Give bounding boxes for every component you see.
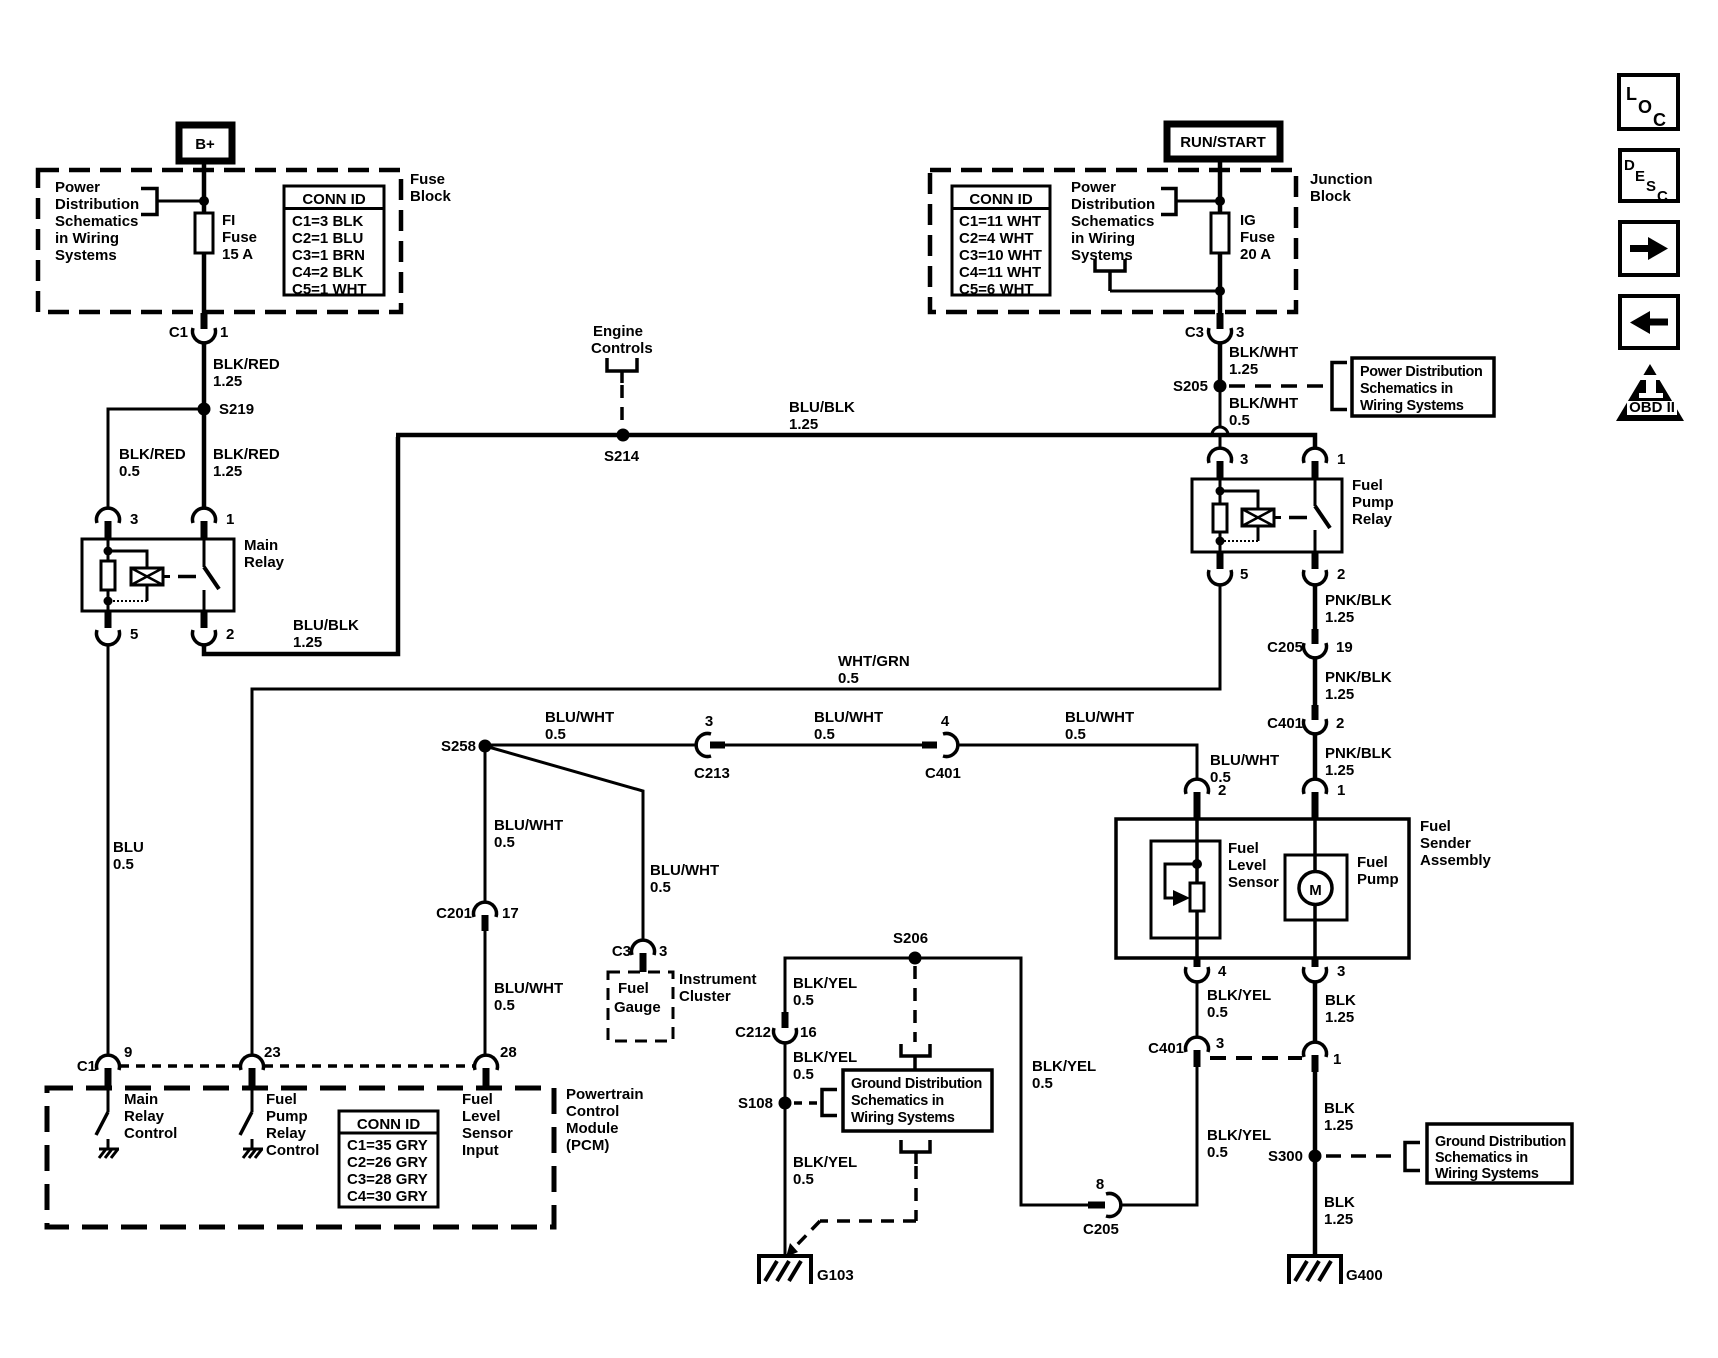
svg-text:PNK/BLK: PNK/BLK <box>1325 592 1392 609</box>
note: Ground Distribution Schematics box (S300) <box>1326 1124 1572 1183</box>
svg-text:BLU/WHT: BLU/WHT <box>1065 709 1134 726</box>
svg-text:Junction: Junction <box>1310 171 1373 188</box>
svg-text:5: 5 <box>130 626 138 643</box>
svg-text:BLK/YEL: BLK/YEL <box>1207 1127 1271 1144</box>
wire BLU/WHT 0.5 horizontal <box>485 744 696 747</box>
wire PNK/BLK 1.25 <box>1313 734 1318 779</box>
svg-text:BLU/WHT: BLU/WHT <box>494 817 563 834</box>
fuel level sensor <box>1151 819 1279 958</box>
wire BLU/WHT 0.5 down to C201 <box>484 752 487 902</box>
svg-text:S300: S300 <box>1268 1148 1303 1165</box>
main relay pin 2 <box>193 611 235 645</box>
svg-text:BLK/RED: BLK/RED <box>213 356 280 373</box>
svg-text:3: 3 <box>1337 963 1345 980</box>
svg-text:Distribution: Distribution <box>55 196 139 213</box>
svg-text:0.5: 0.5 <box>650 879 671 896</box>
main relay pin 5 <box>97 611 139 645</box>
wire BLK/YEL 0.5 from C401-3 to C205-8 <box>1121 1067 1197 1205</box>
wire BLK/WHT 1.25 <box>1218 343 1223 386</box>
label fuel level sensor input <box>462 1091 513 1159</box>
connector C3 pin 3 <box>1185 313 1245 343</box>
svg-text:C2=26 GRY: C2=26 GRY <box>347 1154 428 1171</box>
svg-text:Cluster: Cluster <box>679 988 731 1005</box>
svg-text:C3=10 WHT: C3=10 WHT <box>959 247 1042 264</box>
svg-text:Module: Module <box>566 1120 619 1137</box>
svg-text:Ground Distribution: Ground Distribution <box>851 1076 982 1092</box>
svg-text:Control: Control <box>266 1142 319 1159</box>
svg-text:Schematics in: Schematics in <box>851 1093 944 1109</box>
svg-text:Instrument: Instrument <box>679 971 757 988</box>
svg-text:PNK/BLK: PNK/BLK <box>1325 745 1392 762</box>
wire BLK 1.25 from C401-1 <box>1313 1072 1318 1258</box>
svg-text:0.5: 0.5 <box>1032 1075 1053 1092</box>
svg-text:Level: Level <box>462 1108 500 1125</box>
connector C1 pin 1 <box>169 313 229 343</box>
svg-text:1.25: 1.25 <box>1325 1009 1354 1026</box>
note: Power Distribution Schematics (junction block) <box>1071 179 1220 291</box>
svg-text:3: 3 <box>130 511 138 528</box>
svg-text:O: O <box>1638 97 1652 117</box>
fuel pump relay coil circuit <box>1213 479 1307 552</box>
svg-text:Schematics in: Schematics in <box>1360 381 1453 397</box>
junction block box (dashed) <box>930 170 1296 312</box>
svg-text:Block: Block <box>410 188 452 205</box>
svg-text:1.25: 1.25 <box>1229 361 1258 378</box>
connector C401 pin 1 <box>1304 1042 1342 1072</box>
svg-text:1: 1 <box>1337 782 1345 799</box>
svg-text:1.25: 1.25 <box>789 416 818 433</box>
connector C1 pin 9 <box>77 1044 133 1088</box>
svg-text:0.5: 0.5 <box>793 1066 814 1083</box>
svg-text:S: S <box>1646 178 1656 195</box>
connector C3 pin 3 (instrument cluster) <box>612 940 668 972</box>
wire WHT/GRN 0.5 <box>252 585 1220 1055</box>
svg-text:C5=6 WHT: C5=6 WHT <box>959 281 1034 298</box>
wire BLU 0.5 relay pin5 to PCM <box>107 645 110 1055</box>
ground G400 <box>1289 1256 1383 1284</box>
fuel pump relay switch <box>1315 479 1330 552</box>
svg-text:BLK/YEL: BLK/YEL <box>1207 987 1271 1004</box>
svg-text:C3=28 GRY: C3=28 GRY <box>347 1171 428 1188</box>
relay main relay box <box>82 539 234 611</box>
svg-text:BLU/WHT: BLU/WHT <box>650 862 719 879</box>
wire RUN/START to fuse <box>1218 159 1223 213</box>
svg-text:M: M <box>1309 882 1322 899</box>
ground G103 <box>759 1256 854 1284</box>
splice S205 <box>1214 380 1227 393</box>
svg-text:BLU/WHT: BLU/WHT <box>1210 752 1279 769</box>
svg-text:1.25: 1.25 <box>1325 609 1354 626</box>
main relay pin 3 <box>97 508 139 539</box>
svg-text:S258: S258 <box>441 738 476 755</box>
svg-text:Schematics: Schematics <box>1071 213 1154 230</box>
svg-text:C212: C212 <box>735 1024 771 1041</box>
svg-text:C2=1 BLU: C2=1 BLU <box>292 230 363 247</box>
svg-text:0.5: 0.5 <box>119 463 140 480</box>
svg-text:0.5: 0.5 <box>793 1171 814 1188</box>
svg-text:0.5: 0.5 <box>545 726 566 743</box>
svg-text:1.25: 1.25 <box>1325 762 1354 779</box>
svg-text:Fuel: Fuel <box>1420 818 1451 835</box>
svg-text:0.5: 0.5 <box>113 856 134 873</box>
svg-text:Fuse: Fuse <box>1240 229 1275 246</box>
svg-text:3: 3 <box>705 713 713 730</box>
svg-text:BLK: BLK <box>1324 1100 1355 1117</box>
wire BLK 1.25 <box>1313 982 1318 1042</box>
note: dashed link S206 to ground distribution <box>786 966 930 1257</box>
splice S108 <box>779 1097 792 1110</box>
svg-text:Relay: Relay <box>266 1125 307 1142</box>
svg-text:1: 1 <box>226 511 234 528</box>
svg-text:RUN/START: RUN/START <box>1180 134 1266 151</box>
svg-text:Power Distribution: Power Distribution <box>1360 364 1483 380</box>
svg-text:BLU/WHT: BLU/WHT <box>545 709 614 726</box>
svg-text:Fuel: Fuel <box>1352 477 1383 494</box>
svg-text:Power: Power <box>1071 179 1116 196</box>
svg-text:S219: S219 <box>219 401 254 418</box>
wire BLU/WHT 0.5 <box>725 744 925 747</box>
connector C1 pin 23 <box>241 1044 281 1088</box>
connector C1 pin 28 <box>475 1044 517 1088</box>
svg-text:3: 3 <box>1236 324 1244 341</box>
svg-text:S214: S214 <box>604 448 640 465</box>
svg-text:BLU/BLK: BLU/BLK <box>293 617 359 634</box>
connector C201 pin 17 <box>436 902 519 931</box>
note: Power Distribution Schematics box (S205) <box>1229 358 1494 416</box>
svg-text:0.5: 0.5 <box>814 726 835 743</box>
svg-text:0.5: 0.5 <box>494 997 515 1014</box>
svg-text:C401: C401 <box>1148 1040 1184 1057</box>
svg-text:3: 3 <box>659 943 667 960</box>
fuse FI 15A <box>195 212 257 263</box>
svg-text:Pump: Pump <box>266 1108 308 1125</box>
label Fuse Block <box>410 171 452 205</box>
svg-text:1.25: 1.25 <box>213 373 242 390</box>
svg-text:1.25: 1.25 <box>1324 1117 1353 1134</box>
fuel sender assembly box <box>1116 819 1409 958</box>
svg-text:in Wiring: in Wiring <box>55 230 119 247</box>
splice S219 <box>198 403 211 416</box>
wire fuse to C3 <box>1218 253 1223 321</box>
CONN ID table (PCM) <box>339 1111 438 1207</box>
svg-text:BLK/RED: BLK/RED <box>213 446 280 463</box>
svg-text:3: 3 <box>1216 1035 1224 1052</box>
wire BLK/YEL 0.5 <box>1196 982 1199 1037</box>
wire branch BLK/RED 0.5 <box>108 409 204 508</box>
note: Power Distribution Schematics (fuse block) <box>55 179 204 264</box>
wire BLU/WHT 0.5 to PCM pin 28 <box>484 931 487 1055</box>
svg-text:C2=4 WHT: C2=4 WHT <box>959 230 1034 247</box>
svg-text:C201: C201 <box>436 905 472 922</box>
svg-text:BLK/YEL: BLK/YEL <box>793 1049 857 1066</box>
svg-text:WHT/GRN: WHT/GRN <box>838 653 910 670</box>
svg-text:Fuel: Fuel <box>618 980 649 997</box>
wire BLU/BLK 1.25 relay pin2 to trunk <box>204 437 398 654</box>
svg-text:C5=1 WHT: C5=1 WHT <box>292 281 367 298</box>
svg-text:20 A: 20 A <box>1240 246 1271 263</box>
svg-text:Power: Power <box>55 179 100 196</box>
CONN ID table (junction block) <box>952 186 1050 298</box>
svg-text:1.25: 1.25 <box>1325 686 1354 703</box>
svg-text:C3=1 BRN: C3=1 BRN <box>292 247 365 264</box>
svg-text:Main: Main <box>124 1091 158 1108</box>
svg-text:BLK/YEL: BLK/YEL <box>793 1154 857 1171</box>
svg-text:Pump: Pump <box>1352 494 1394 511</box>
main relay pin 1 <box>193 508 235 539</box>
svg-text:Systems: Systems <box>55 247 117 264</box>
svg-text:Relay: Relay <box>244 554 285 571</box>
gauge fuel gauge (dashed box) <box>608 972 673 1041</box>
wire fuse to C1 <box>202 253 207 321</box>
note: Ground Distribution Schematics box (S108) <box>794 1070 992 1131</box>
fuel sender pin 1 <box>1304 779 1346 819</box>
svg-text:4: 4 <box>941 713 950 730</box>
icon DESC <box>1620 150 1678 205</box>
svg-text:Main: Main <box>244 537 278 554</box>
svg-text:C1: C1 <box>169 324 188 341</box>
transistor switch: main relay control <box>96 1088 177 1158</box>
svg-text:1.25: 1.25 <box>293 634 322 651</box>
wire BLU/WHT 0.5 diagonal to fuel gauge <box>485 746 643 940</box>
svg-text:5: 5 <box>1240 566 1248 583</box>
svg-text:3: 3 <box>1240 451 1248 468</box>
svg-text:Fuel: Fuel <box>1357 854 1388 871</box>
svg-text:PNK/BLK: PNK/BLK <box>1325 669 1392 686</box>
svg-text:Fuel: Fuel <box>266 1091 297 1108</box>
svg-text:Input: Input <box>462 1142 499 1159</box>
wire BLK/RED 1.25 <box>202 343 207 508</box>
svg-text:FI: FI <box>222 212 235 229</box>
svg-text:G400: G400 <box>1346 1267 1383 1284</box>
svg-text:BLK/YEL: BLK/YEL <box>1032 1058 1096 1075</box>
splice S258 <box>479 740 492 753</box>
connector C213 pin 3 <box>694 713 730 782</box>
svg-text:9: 9 <box>124 1044 132 1061</box>
connector C212 pin 16 <box>735 1012 817 1043</box>
svg-text:C3: C3 <box>1185 324 1204 341</box>
svg-text:C401: C401 <box>925 765 961 782</box>
svg-text:BLK: BLK <box>1324 1194 1355 1211</box>
svg-text:BLU/BLK: BLU/BLK <box>789 399 855 416</box>
svg-text:BLK/WHT: BLK/WHT <box>1229 395 1298 412</box>
svg-text:Schematics in: Schematics in <box>1435 1150 1528 1166</box>
svg-text:G103: G103 <box>817 1267 854 1284</box>
svg-text:2: 2 <box>1337 566 1345 583</box>
svg-text:15 A: 15 A <box>222 246 253 263</box>
wire BLK/YEL 0.5 <box>784 1043 787 1258</box>
svg-text:S205: S205 <box>1173 378 1208 395</box>
transistor switch: fuel pump relay control <box>240 1088 319 1159</box>
svg-text:Relay: Relay <box>1352 511 1393 528</box>
svg-text:0.5: 0.5 <box>1065 726 1086 743</box>
svg-text:(PCM): (PCM) <box>566 1137 609 1154</box>
svg-text:Level: Level <box>1228 857 1266 874</box>
svg-text:8: 8 <box>1096 1176 1104 1193</box>
svg-text:C1=11 WHT: C1=11 WHT <box>959 213 1041 230</box>
note: Engine Controls callout <box>591 323 653 429</box>
splice S206 <box>909 952 922 965</box>
power source B+ <box>179 125 232 161</box>
svg-text:2: 2 <box>1218 782 1226 799</box>
connector C205 pin 8 <box>1083 1176 1121 1238</box>
svg-text:1: 1 <box>1337 451 1345 468</box>
svg-text:Assembly: Assembly <box>1420 852 1492 869</box>
svg-text:C4=11 WHT: C4=11 WHT <box>959 264 1041 281</box>
svg-text:Distribution: Distribution <box>1071 196 1155 213</box>
CONN ID table (fuse block) <box>284 186 384 298</box>
svg-text:BLK/WHT: BLK/WHT <box>1229 344 1298 361</box>
svg-text:OBD II: OBD II <box>1629 399 1675 416</box>
svg-text:BLU/WHT: BLU/WHT <box>814 709 883 726</box>
svg-text:CONN ID: CONN ID <box>302 191 366 208</box>
svg-text:C205: C205 <box>1267 639 1303 656</box>
fuel pump relay pin 1 <box>1304 448 1346 479</box>
svg-text:IG: IG <box>1240 212 1256 229</box>
wire PNK/BLK 1.25 <box>1313 585 1318 636</box>
svg-text:C: C <box>1653 110 1666 130</box>
svg-text:16: 16 <box>800 1024 817 1041</box>
connector C1 internal link (dotted) <box>120 1064 474 1068</box>
main relay coil circuit <box>101 539 196 611</box>
svg-text:E: E <box>1635 168 1645 185</box>
label Instrument Cluster <box>679 971 757 1005</box>
connector C401 internal link (dashed) <box>1210 1056 1302 1060</box>
fuel sender pin 4 <box>1186 958 1228 982</box>
connector C205 pin 19 <box>1267 629 1353 658</box>
svg-text:Powertrain: Powertrain <box>566 1086 644 1103</box>
svg-text:Control: Control <box>124 1125 177 1142</box>
fuel sender pin 2 <box>1186 779 1227 819</box>
svg-text:BLU/WHT: BLU/WHT <box>494 980 563 997</box>
svg-text:C3: C3 <box>612 943 631 960</box>
svg-text:23: 23 <box>264 1044 281 1061</box>
wire BLK/WHT 0.5 with hop over trunk <box>1219 386 1222 427</box>
icon arrow left <box>1620 296 1678 348</box>
svg-text:BLK/RED: BLK/RED <box>119 446 186 463</box>
svg-text:Wiring Systems: Wiring Systems <box>851 1110 955 1126</box>
node: junction dot at fuse feed <box>199 196 209 206</box>
svg-text:0.5: 0.5 <box>1207 1144 1228 1161</box>
PCM box (dashed) <box>47 1088 554 1227</box>
svg-text:CONN ID: CONN ID <box>357 1116 421 1133</box>
svg-text:D: D <box>1624 157 1635 174</box>
svg-text:Relay: Relay <box>124 1108 165 1125</box>
svg-text:S108: S108 <box>738 1095 773 1112</box>
svg-text:BLU: BLU <box>113 839 144 856</box>
splice S214 <box>617 429 630 442</box>
connector C401 pin 4 <box>922 713 961 782</box>
svg-text:1.25: 1.25 <box>1324 1211 1353 1228</box>
svg-text:C1=35 GRY: C1=35 GRY <box>347 1137 428 1154</box>
svg-text:2: 2 <box>1336 715 1344 732</box>
motor fuel pump <box>1285 819 1399 958</box>
svg-text:Pump: Pump <box>1357 871 1399 888</box>
splice S300 <box>1309 1150 1322 1163</box>
svg-text:BLK/YEL: BLK/YEL <box>793 975 857 992</box>
svg-text:Sensor: Sensor <box>1228 874 1279 891</box>
wire PNK/BLK 1.25 <box>1313 658 1318 712</box>
svg-text:C4=2 BLK: C4=2 BLK <box>292 264 363 281</box>
svg-text:0.5: 0.5 <box>1207 1004 1228 1021</box>
svg-text:Fuse: Fuse <box>410 171 445 188</box>
fuse block box (dashed) <box>38 170 401 312</box>
fuel sender pin 3 <box>1304 958 1346 982</box>
svg-text:0.5: 0.5 <box>1229 412 1250 429</box>
svg-text:L: L <box>1626 84 1637 104</box>
svg-text:S206: S206 <box>893 930 928 947</box>
svg-text:Sensor: Sensor <box>462 1125 513 1142</box>
svg-text:Gauge: Gauge <box>614 999 661 1016</box>
icon arrow right <box>1620 222 1678 275</box>
svg-text:Ground Distribution: Ground Distribution <box>1435 1134 1566 1150</box>
svg-text:Block: Block <box>1310 188 1352 205</box>
svg-text:2: 2 <box>226 626 234 643</box>
icon LOC <box>1619 75 1678 130</box>
main relay switch <box>204 539 219 611</box>
svg-text:B+: B+ <box>195 136 215 153</box>
label Junction Block <box>1310 171 1373 205</box>
svg-text:0.5: 0.5 <box>793 992 814 1009</box>
svg-text:Fuel: Fuel <box>1228 840 1259 857</box>
svg-text:C: C <box>1657 188 1668 205</box>
svg-text:Fuel: Fuel <box>462 1091 493 1108</box>
svg-text:Engine: Engine <box>593 323 643 340</box>
svg-text:1: 1 <box>1333 1051 1341 1068</box>
wire B+ to fuse <box>202 161 207 213</box>
connector C401 pin 2 <box>1267 705 1344 734</box>
svg-text:28: 28 <box>500 1044 517 1061</box>
svg-text:4: 4 <box>1218 963 1227 980</box>
svg-text:Wiring Systems: Wiring Systems <box>1360 398 1464 414</box>
svg-text:19: 19 <box>1336 639 1353 656</box>
svg-text:1: 1 <box>220 324 228 341</box>
fuel pump relay pin 5 <box>1209 552 1249 585</box>
fuel pump relay pin 3 <box>1209 448 1249 479</box>
label Powertrain Control Module (PCM) <box>566 1086 644 1154</box>
relay fuel pump relay box <box>1192 479 1342 552</box>
svg-text:C1: C1 <box>77 1058 96 1075</box>
svg-text:CONN ID: CONN ID <box>969 191 1033 208</box>
svg-text:0.5: 0.5 <box>494 834 515 851</box>
wire BLU/WHT 0.5 to fuel level sensor <box>958 745 1197 779</box>
svg-text:Control: Control <box>566 1103 619 1120</box>
svg-text:C4=30 GRY: C4=30 GRY <box>347 1188 428 1205</box>
svg-text:C401: C401 <box>1267 715 1303 732</box>
power source RUN/START <box>1167 124 1280 159</box>
svg-text:Schematics: Schematics <box>55 213 138 230</box>
svg-text:Sender: Sender <box>1420 835 1471 852</box>
fuse IG 20A <box>1211 212 1275 263</box>
svg-text:Controls: Controls <box>591 340 653 357</box>
wire BLU/BLK 1.25 trunk <box>396 435 1315 448</box>
wire BLK/YEL 0.5 to S206 trunk <box>785 958 1088 1205</box>
svg-text:Wiring Systems: Wiring Systems <box>1435 1166 1539 1182</box>
svg-text:C213: C213 <box>694 765 730 782</box>
svg-text:in Wiring: in Wiring <box>1071 230 1135 247</box>
svg-text:Fuse: Fuse <box>222 229 257 246</box>
svg-text:BLK: BLK <box>1325 992 1356 1009</box>
fuel pump relay pin 2 <box>1304 552 1346 585</box>
svg-text:1.25: 1.25 <box>213 463 242 480</box>
icon OBD II triangle <box>1616 364 1684 421</box>
svg-text:C1=3 BLK: C1=3 BLK <box>292 213 363 230</box>
svg-text:17: 17 <box>502 905 519 922</box>
node: junction dots on feed wire <box>1215 196 1225 206</box>
connector C401 pin 3 <box>1148 1035 1224 1067</box>
svg-text:C205: C205 <box>1083 1221 1119 1238</box>
svg-text:0.5: 0.5 <box>838 670 859 687</box>
